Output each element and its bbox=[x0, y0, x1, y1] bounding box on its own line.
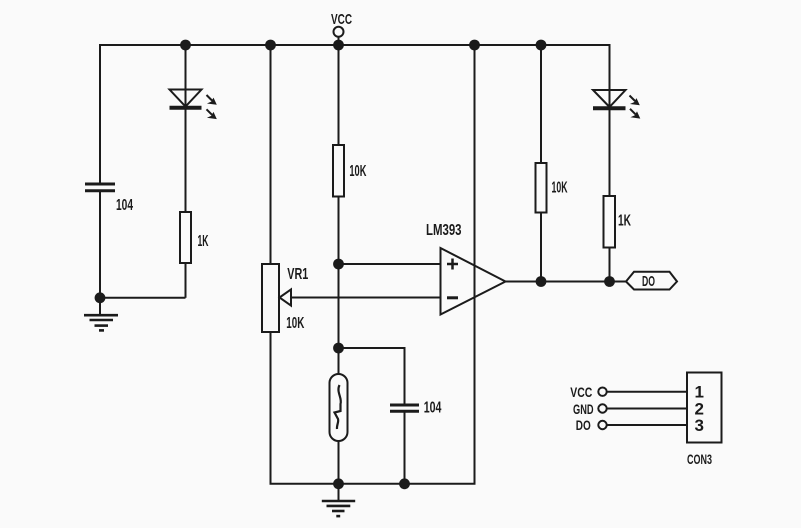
svg-text:10K: 10K bbox=[552, 180, 568, 197]
svg-text:10K: 10K bbox=[286, 315, 304, 332]
svg-text:10K: 10K bbox=[349, 163, 366, 180]
svg-text:1K: 1K bbox=[198, 233, 209, 250]
svg-text:LM393: LM393 bbox=[426, 222, 462, 239]
svg-text:VCC: VCC bbox=[331, 11, 352, 28]
svg-text:DO: DO bbox=[642, 273, 655, 290]
svg-text:DO: DO bbox=[576, 417, 591, 433]
svg-text:VR1: VR1 bbox=[287, 266, 308, 283]
svg-text:104: 104 bbox=[424, 400, 442, 417]
svg-text:1K: 1K bbox=[618, 213, 631, 230]
svg-text:104: 104 bbox=[116, 197, 133, 214]
svg-text:3: 3 bbox=[695, 416, 704, 435]
svg-text:CON3: CON3 bbox=[687, 451, 712, 467]
svg-text:VCC: VCC bbox=[570, 384, 592, 400]
svg-text:GND: GND bbox=[573, 401, 594, 417]
